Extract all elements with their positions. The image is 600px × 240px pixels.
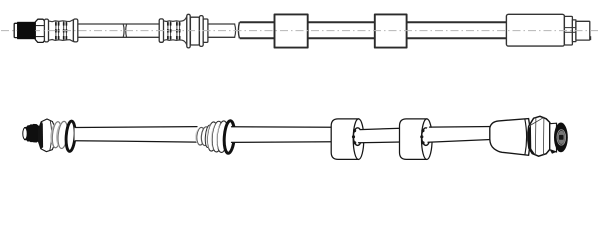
right nut facet edges <box>534 118 537 155</box>
hose thin segment B (flange to S-break) <box>208 24 235 37</box>
torus inner bore (grey) <box>558 131 565 144</box>
threaded body (black) placeholder under nut <box>17 22 35 39</box>
male tip cap (top view) <box>14 23 18 37</box>
hose bold sleeved segment <box>240 22 507 38</box>
hose segment 1 (left fitting to mid fitting) <box>75 127 198 143</box>
grommet 1 body <box>331 119 358 159</box>
end cylinder bottom shadow <box>550 150 557 154</box>
flange collar D <box>203 19 208 42</box>
hose thin segment A (ferrule to mid fitting) <box>78 24 160 37</box>
end ring 1 <box>564 16 572 45</box>
ferrule 2 rib lines with crimp marks <box>168 21 180 40</box>
S-break arc (bold side) <box>238 22 239 38</box>
grommet 1 hole (scalloped) <box>353 128 361 146</box>
crimp ferrule 1 silhouette <box>48 20 73 42</box>
threaded body black overlay (covers centerline) <box>17 22 35 39</box>
ferrule 1 left cap <box>44 19 48 42</box>
end ring 2 <box>572 20 576 42</box>
hose segment 3 (grommet 1 to grommet 2) <box>358 128 401 142</box>
hex nut facet lines <box>35 25 45 27</box>
mounting block 2 <box>375 14 407 47</box>
female end block <box>576 21 590 40</box>
left nut shadow band <box>38 122 43 150</box>
left hex nut (pictorial) <box>39 119 55 152</box>
left crimp end ring (black) <box>65 121 76 152</box>
end block nub <box>590 36 592 40</box>
flange cylinder B <box>190 17 199 45</box>
hex nut (top view, octagon) <box>35 19 45 42</box>
left male tip (black, pictorial, threaded) <box>25 124 40 142</box>
ferrule 2 left cap <box>159 19 163 42</box>
left tip end face <box>23 128 27 140</box>
grommet 2 body <box>400 119 427 159</box>
end cylinder between nut and ring <box>550 123 557 152</box>
torus inner ring highlight <box>557 130 566 145</box>
washer band 2 <box>55 121 69 149</box>
hose joint arc pair at x=124 <box>122 24 125 37</box>
centerline (dash-dot) <box>1 30 598 32</box>
hose segment 4 (grommet 2 to end sleeve) <box>427 127 494 143</box>
flange disc A (tall) <box>187 14 190 48</box>
end crimp sleeve (top view right) <box>506 14 564 46</box>
mid crimp rib 2 <box>210 121 225 153</box>
black torus end face <box>554 122 568 152</box>
grommet 1 face ellipse <box>353 119 364 160</box>
end sleeve (pictorial) <box>490 119 530 156</box>
ferrule 1 rib lines with crimp marks <box>56 21 67 40</box>
mid crimp rib 1 <box>205 121 218 151</box>
hose segment 2 (mid fitting to grommet 1) <box>232 127 334 143</box>
end sleeve rim arc <box>525 119 527 155</box>
right nut bottom shadow <box>529 146 535 154</box>
end ring facet lines <box>564 27 576 29</box>
mid fitting collar 2 <box>201 126 211 145</box>
mid fitting small collar <box>194 127 205 145</box>
S-break arc (thin side) <box>235 24 236 37</box>
ferrule 1 right cap <box>73 19 77 42</box>
grommet 2 face ellipse <box>422 119 433 160</box>
bore inner dark slot <box>559 135 564 140</box>
right nut shadow wedge <box>528 125 531 152</box>
crimp ferrule 2 (mid) silhouette with right flare <box>163 16 186 45</box>
washer band 1 <box>49 121 62 148</box>
flange disc C <box>199 16 203 47</box>
grommet 2 hole (scalloped) <box>422 128 430 146</box>
mounting block 1 <box>275 14 308 47</box>
left nut facet edges <box>50 121 52 150</box>
mid crimp end ring (black) <box>223 120 235 153</box>
mid fitting step disc <box>204 125 212 148</box>
mid crimp rib 3 <box>215 120 229 152</box>
right hex nut (pictorial) <box>528 116 550 156</box>
